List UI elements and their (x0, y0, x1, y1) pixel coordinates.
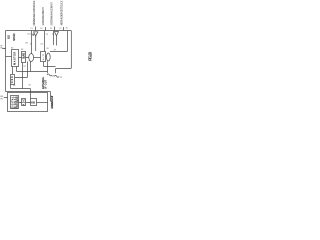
svg-text:SLAVE: SLAVE (23, 52, 26, 58)
svg-text:INTERNAL DIGITAL TEST CLOCK: INTERNAL DIGITAL TEST CLOCK (59, 0, 63, 25)
svg-text:FIG. 20: FIG. 20 (87, 51, 92, 61)
svg-text:EXTERNAL TL OUT: EXTERNAL TL OUT (51, 95, 54, 109)
svg-text:INTERNAL ANALOG TEST CLOCK: INTERNAL ANALOG TEST CLOCK (32, 0, 36, 25)
svg-text:PROCESS: PROCESS (17, 96, 19, 108)
svg-text:MASTER: MASTER (13, 33, 16, 41)
svg-text:IF OUT: IF OUT (46, 79, 48, 89)
svg-text:KB: KB (31, 101, 35, 105)
svg-text:ADC: ADC (23, 99, 26, 106)
svg-text:EXTERNAL: EXTERNAL (42, 76, 45, 89)
svg-text:OSC: OSC (12, 76, 14, 83)
svg-text:EXTERNAL RF INPUT: EXTERNAL RF INPUT (41, 7, 45, 26)
svg-text:MASTER: MASTER (14, 51, 17, 64)
svg-text:EXTERNAL ANALOG INPUT: EXTERNAL ANALOG INPUT (50, 2, 54, 26)
